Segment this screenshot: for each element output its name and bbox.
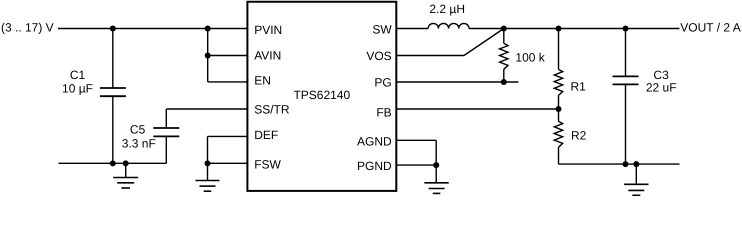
capacitor C3 xyxy=(613,76,639,84)
svg-text:EN: EN xyxy=(254,74,271,88)
capacitor C1 xyxy=(100,88,126,96)
wire FSW xyxy=(208,162,249,164)
svg-text:PGND: PGND xyxy=(357,159,392,173)
ground G2 xyxy=(196,163,220,191)
wire 100k top lead xyxy=(503,29,505,44)
svg-text:PVIN: PVIN xyxy=(254,23,282,37)
svg-text:R1: R1 xyxy=(571,79,587,93)
wire C3 bottom lead xyxy=(625,84,627,164)
wire C1 bottom lead xyxy=(112,96,114,163)
junction L1 output node xyxy=(501,26,507,32)
wire 100k bottom lead xyxy=(503,69,505,82)
inductor L1 xyxy=(428,23,469,28)
wire DEF xyxy=(208,135,249,137)
svg-text:VOUT / 2 A: VOUT / 2 A xyxy=(680,21,740,35)
svg-text:2.2 µH: 2.2 µH xyxy=(429,2,465,16)
resistor R1 xyxy=(554,69,562,95)
junction PG 100k xyxy=(501,79,507,85)
wire jumper vertical PVIN-AVIN-EN xyxy=(207,29,209,82)
wire R1 bottom lead xyxy=(558,95,560,109)
wire C3 top lead xyxy=(625,29,627,77)
svg-text:TPS62140: TPS62140 xyxy=(293,88,350,102)
svg-text:22 uF: 22 uF xyxy=(646,81,677,95)
wire SW node to VOUT xyxy=(469,28,680,30)
svg-text:R2: R2 xyxy=(571,129,587,143)
wire C5 bottom lead xyxy=(165,136,167,163)
svg-text:C5: C5 xyxy=(130,123,146,137)
junction C3 bottom xyxy=(623,161,629,167)
wire SW xyxy=(397,28,428,30)
svg-text:3.3 nF: 3.3 nF xyxy=(122,137,156,151)
svg-text:FB: FB xyxy=(376,106,391,120)
junction C1 top xyxy=(110,26,116,32)
ground G4 xyxy=(624,164,648,195)
svg-text:SS/TR: SS/TR xyxy=(254,102,290,116)
wire DEF-FSW vertical xyxy=(207,136,209,163)
svg-text:10 µF: 10 µF xyxy=(62,82,93,96)
junction C3 top xyxy=(623,26,629,32)
svg-text:PG: PG xyxy=(374,76,391,90)
junction C1 bottom xyxy=(110,160,116,166)
wire AVIN xyxy=(208,55,248,57)
junction PGND ground xyxy=(433,162,439,168)
wire left ground rail xyxy=(59,162,167,164)
wire FB xyxy=(397,108,559,110)
wire R2 bottom lead xyxy=(558,147,560,164)
wire R2 top lead xyxy=(558,109,560,121)
ground G1 xyxy=(113,163,138,188)
wire C1 top lead xyxy=(112,29,114,89)
wire SS/TR xyxy=(166,108,248,110)
junction AVIN jumper top xyxy=(205,26,211,32)
wire VIN rail to PVIN xyxy=(58,28,248,30)
junction FB node xyxy=(556,106,562,112)
wire EN xyxy=(208,81,248,83)
wire VOS horizontal xyxy=(397,55,464,57)
wire PGND xyxy=(397,164,436,166)
junction ground G4 stem xyxy=(633,161,639,167)
junction FSW ground xyxy=(205,160,211,166)
junction AVIN xyxy=(205,53,211,59)
wire VOS diagonal xyxy=(464,29,504,56)
wire R1 top lead xyxy=(558,29,560,70)
wire PG xyxy=(397,81,518,83)
resistor 100k xyxy=(500,43,508,69)
resistor R2 xyxy=(554,121,562,147)
ground G3 xyxy=(424,165,448,193)
capacitor C5 xyxy=(153,128,179,136)
svg-text:VOS: VOS xyxy=(366,49,391,63)
junction R1 top xyxy=(556,26,562,32)
svg-text:100 k: 100 k xyxy=(515,50,545,64)
svg-text:(3 .. 17) V: (3 .. 17) V xyxy=(1,20,54,34)
wire AGND xyxy=(397,139,436,141)
svg-text:SW: SW xyxy=(372,22,392,36)
svg-text:FSW: FSW xyxy=(254,158,281,172)
IC U1 TPS62140 box xyxy=(247,2,396,191)
wire bottom right rail xyxy=(559,163,680,165)
svg-text:C1: C1 xyxy=(70,68,86,82)
svg-text:DEF: DEF xyxy=(254,128,278,142)
svg-text:AVIN: AVIN xyxy=(254,48,281,62)
junction ground G1 stem xyxy=(123,160,129,166)
wire C5 top lead xyxy=(165,109,167,128)
svg-text:AGND: AGND xyxy=(357,135,392,149)
wire AGND-PGND vertical xyxy=(435,140,437,165)
